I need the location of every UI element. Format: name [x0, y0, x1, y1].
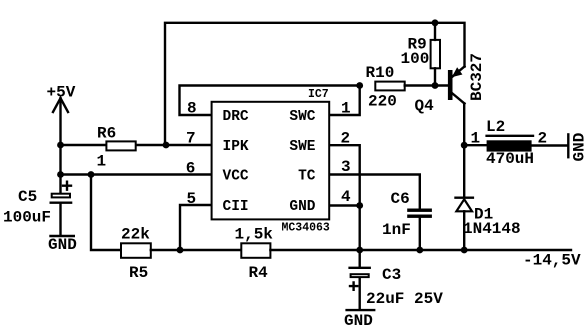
svg-text:1: 1	[97, 153, 107, 171]
capacitor C3 22uF	[350, 250, 444, 309]
wire VCC row (pin 6)	[61, 173, 211, 175]
op-amp IC7 MC34063 box	[212, 88, 330, 235]
node junction C5/VCC	[57, 171, 64, 178]
svg-text:1N4148: 1N4148	[463, 220, 521, 238]
ground right of L2	[568, 133, 588, 162]
svg-text:4: 4	[341, 188, 351, 206]
node junction R10/R9/base	[432, 82, 439, 89]
capacitor C5	[3, 182, 71, 235]
resistor R6	[97, 125, 136, 171]
svg-text:Q4: Q4	[415, 97, 435, 115]
svg-text:R10: R10	[366, 64, 395, 82]
svg-text:R5: R5	[129, 264, 148, 282]
inductor L2 470uH	[471, 118, 548, 168]
svg-text:C3: C3	[382, 266, 401, 284]
node junction D1/rail	[461, 247, 468, 254]
+5V supply symbol	[47, 84, 76, 113]
svg-text:1nF: 1nF	[382, 221, 411, 239]
wire R10 right lead to Q4 base	[405, 84, 448, 86]
svg-text:100uF: 100uF	[3, 209, 51, 227]
node junction pin2/pin4	[356, 202, 363, 209]
capacitor C6 1nF	[382, 190, 432, 239]
svg-text:7: 7	[186, 130, 196, 148]
resistor R9	[401, 35, 441, 68]
node junction top rail/R9	[432, 19, 439, 26]
svg-text:GND: GND	[344, 312, 373, 329]
wire R9 top lead	[434, 23, 436, 40]
resistor R4	[235, 226, 274, 283]
wire pin 2 route down	[330, 145, 360, 205]
svg-text:BC327: BC327	[468, 53, 486, 101]
wire D1 anode to bottom rail	[463, 211, 465, 250]
svg-text:470uH: 470uH	[486, 150, 534, 168]
ground below C5	[48, 236, 77, 254]
ground below C3	[344, 310, 374, 329]
wire pin7 row (+5V to IC pin 7 through R6)	[61, 144, 211, 146]
svg-text:DRC: DRC	[223, 109, 249, 125]
svg-text:220: 220	[368, 93, 397, 111]
svg-text:GND: GND	[571, 133, 588, 162]
svg-text:6: 6	[186, 159, 196, 177]
svg-text:GND: GND	[289, 199, 315, 215]
wire pin 8 route up and over to node B	[180, 86, 360, 116]
node junction rail/C3	[356, 247, 363, 254]
wire inductor to right ground	[532, 144, 567, 146]
node junction collector/L2/D1	[461, 142, 468, 149]
svg-text:VCC: VCC	[223, 169, 249, 185]
svg-text:SWE: SWE	[289, 139, 315, 155]
transistor Q4 BC327	[415, 53, 487, 115]
wire C6 bottom to rail	[419, 218, 421, 250]
svg-text:C6: C6	[391, 190, 410, 208]
svg-text:R4: R4	[249, 264, 269, 282]
wire pin 5 branch	[180, 205, 211, 250]
wire pin 1 route	[330, 86, 360, 116]
wire top rail from left vertical to Q4 emitter corner	[165, 23, 465, 145]
svg-text:L2: L2	[486, 118, 505, 136]
resistor R5	[121, 226, 151, 283]
svg-text:C5: C5	[18, 188, 37, 206]
diode D1 1N4148	[456, 198, 521, 238]
svg-text:IC7: IC7	[308, 88, 329, 101]
svg-text:100: 100	[401, 50, 430, 68]
svg-text:MC34063: MC34063	[282, 222, 330, 235]
wire R5 to R4 row	[151, 249, 242, 251]
svg-text:-14,5V: -14,5V	[523, 252, 581, 270]
svg-text:R6: R6	[97, 125, 116, 143]
svg-text:GND: GND	[48, 236, 77, 254]
svg-text:5: 5	[187, 190, 197, 208]
wire Q4 collector down to L2 node	[463, 104, 465, 198]
svg-text:IPK: IPK	[223, 139, 249, 155]
wire pin 3 route to C6	[330, 175, 420, 209]
wire VCC branch down to R5	[91, 175, 119, 251]
wire R4 to bottom rail	[270, 249, 571, 251]
node junction pin8/pin1/R10	[356, 82, 363, 89]
node junction R6/top-rail vertical	[163, 142, 170, 149]
node junction C6/rail	[416, 247, 423, 254]
svg-text:1,5k: 1,5k	[235, 226, 274, 244]
svg-text:CII: CII	[223, 199, 249, 215]
wire pin 4 stub	[330, 204, 360, 206]
node junction R5/R4/pin5	[177, 247, 184, 254]
resistor R10	[366, 64, 405, 111]
svg-text:1: 1	[471, 130, 481, 148]
wire L2 node to inductor	[464, 144, 487, 146]
svg-text:TC: TC	[298, 169, 316, 185]
wire +5V vertical down to C5	[59, 98, 61, 193]
svg-text:22k: 22k	[121, 226, 150, 244]
node junction VCC/R5 branch	[88, 171, 95, 178]
node junction +5V/R6	[57, 142, 64, 149]
wire pin4 node down to rail	[359, 206, 361, 251]
svg-text:SWC: SWC	[289, 109, 315, 125]
svg-text:22uF 25V: 22uF 25V	[366, 290, 443, 308]
wire R9 bottom lead	[434, 68, 436, 85]
